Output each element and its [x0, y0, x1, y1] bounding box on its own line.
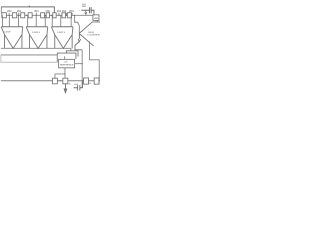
svg-text:5k: 5k: [69, 84, 71, 86]
switch S6: [53, 13, 56, 18]
ground (arrow bottom): [64, 84, 67, 93]
transducer Y3: [51, 27, 73, 49]
node dot bus 6: [58, 15, 59, 16]
switch S5a: [41, 13, 45, 18]
svg-text:2.4929 V: 2.4929 V: [57, 32, 66, 34]
wire reference bottom tee: [55, 68, 65, 78]
resistor R1: [53, 78, 58, 84]
switch S8: [67, 13, 71, 18]
wire supply lead: [81, 10, 94, 15]
wire staircase from summing rail: [70, 48, 72, 51]
wire bottom rail: [1, 80, 100, 82]
node dot bus 8: [74, 15, 75, 16]
wire U2 output down: [96, 20, 98, 22]
resistor R3: [84, 78, 89, 84]
svg-text:2.4929 V: 2.4929 V: [32, 32, 41, 34]
svg-text:COUNTER: COUNTER: [87, 34, 100, 36]
wire drop rail to bus at left: [0, 7, 2, 13]
node dot bus 7: [66, 15, 67, 16]
switch S2: [12, 13, 16, 18]
node dot apex Y1: [12, 47, 15, 50]
node dot tee: [64, 73, 65, 74]
amplifier U1: [79, 22, 101, 46]
switch S4: [28, 13, 32, 18]
node dot bus 2: [18, 15, 19, 16]
svg-text:2N4: 2N4: [46, 10, 51, 13]
svg-text:2N4: 2N4: [69, 10, 74, 13]
wire arrow from amp apex: [75, 35, 82, 50]
svg-text:TANT: TANT: [82, 5, 88, 8]
svg-text:REFERENCE: REFERENCE: [60, 64, 74, 66]
node dot bottom 3: [82, 80, 83, 81]
node dot bus 4b: [45, 15, 46, 16]
wire amp output down right: [90, 41, 100, 80]
wire reference feed vertical: [81, 50, 83, 88]
switch S7: [62, 13, 66, 18]
resistor R2: [63, 78, 68, 84]
node dot bus 5: [51, 15, 52, 16]
transducer Y1: [1, 27, 23, 49]
capacitor C2: [74, 81, 83, 91]
resistor R4: [94, 78, 99, 84]
svg-text:2N4: 2N4: [7, 10, 12, 13]
wire V+ rail: [1, 7, 54, 13]
wire cell bridge inner: [57, 53, 76, 59]
wire drop bus to amp U1: [75, 15, 80, 32]
wire stub to reference top: [64, 56, 66, 59]
wire cell bridge outer: [66, 51, 78, 57]
node dot apex Y2: [37, 47, 40, 50]
svg-text:2N4: 2N4: [34, 10, 39, 13]
capacitor C1 (tantalum): [90, 7, 92, 13]
switch S5b: [46, 13, 49, 18]
wire summing rail: [1, 47, 71, 49]
svg-text:2N4: 2N4: [62, 10, 67, 13]
node dot ref out: [82, 63, 83, 64]
cell stack long plate: [1, 55, 57, 62]
node dot bus 1: [9, 15, 10, 16]
node dot bus 4: [36, 15, 37, 16]
box U3 voltage reference: [59, 59, 75, 68]
node dot bottom 4: [99, 80, 100, 81]
wire drops bus to transducer Y1: [3, 15, 19, 26]
svg-text:1k: 1k: [89, 83, 91, 85]
wire drops bus to transducer Y2: [28, 15, 46, 26]
node dot apex Y3: [62, 47, 65, 50]
ground (arrow below supply lead): [85, 10, 87, 14]
node dot rail A: [29, 6, 30, 7]
transducer Y2: [26, 27, 48, 49]
node dot bottom 1: [60, 80, 61, 81]
switch S1: [2, 13, 7, 18]
wire bus: [1, 14, 93, 16]
node dot bus 3: [26, 15, 27, 16]
svg-text:2N4: 2N4: [17, 10, 22, 13]
svg-text:2.4929: 2.4929: [4, 32, 11, 34]
wire reference output right: [75, 63, 83, 65]
box U2 (top right module): [93, 15, 99, 21]
node tick A on rail: [28, 6, 30, 7]
wire drops bus to transducer Y3: [52, 15, 71, 26]
wire label stubs on bus: [9, 13, 72, 16]
switch S3: [21, 13, 25, 18]
svg-text:+: +: [79, 10, 81, 12]
